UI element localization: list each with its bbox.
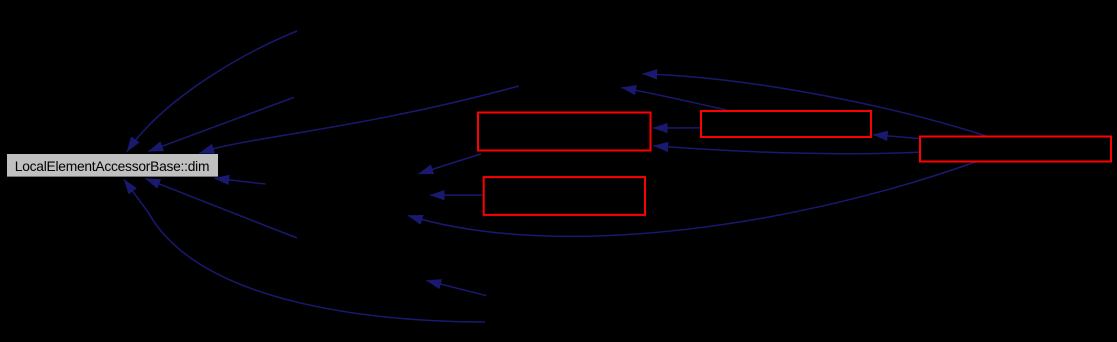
wire edge E6 straight line into dim bottom (146, 179, 298, 238)
wire edge E5 big bottom swoop into dim (124, 180, 485, 323)
wire edge E1 from hidden node to dim (top-left big curve) (127, 31, 297, 152)
node D (red truncated box, lower center) (484, 177, 645, 215)
wire edge E10 from node D left edge to hidden node (430, 194, 483, 196)
wire edge E14 from node C to node A (passes under B) (654, 146, 920, 154)
node C (red truncated box, far right) (920, 137, 1111, 162)
node dim (gray current node) (7, 154, 218, 177)
wire edge E11 from node C bottom sweeping to hidden node (408, 161, 978, 236)
node B (red truncated box, right of A) (701, 111, 871, 137)
node A (red truncated box, center) (478, 113, 651, 151)
svg-text:LocalElementAccessorBase::dim: LocalElementAccessorBase::dim (15, 159, 209, 174)
wire edge E2 from hidden node to dim (149, 97, 295, 151)
wire edge E12 short edge to hidden node (427, 281, 487, 296)
wire edge E13 from node B to node A (653, 127, 700, 129)
wire edge E9 from node A bottom-left to hidden node (419, 154, 482, 174)
wire edge E4 short edge into dim bottom-right corner (215, 178, 266, 184)
wire edge E15 from node C to node B (873, 135, 919, 139)
wire edge E7 from node C top sweeping to hidden node (643, 74, 987, 136)
wire edge E3 from hidden node to dim (long flat line) (200, 86, 520, 153)
wire edge E8 from node C corner to hidden node (622, 88, 728, 110)
